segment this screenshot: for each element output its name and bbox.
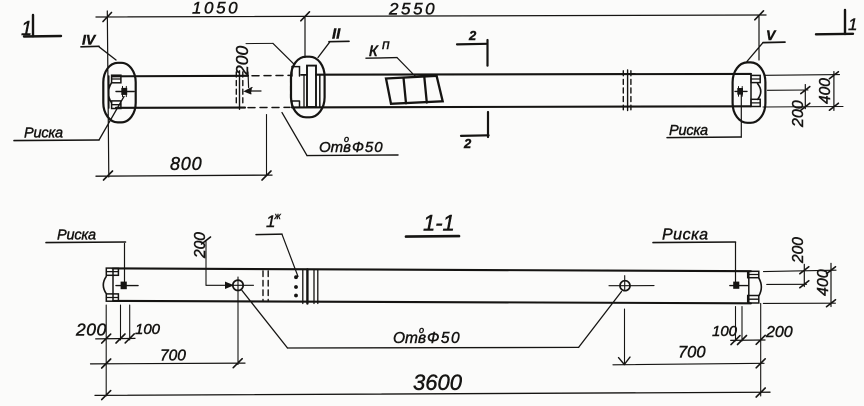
svg-text:II: II [332, 26, 341, 43]
svg-text:п: п [382, 36, 390, 52]
svg-text:200: 200 [790, 237, 807, 264]
svg-text:Ф50: Ф50 [352, 139, 384, 156]
svg-text:Риска: Риска [24, 126, 63, 142]
svg-text:Риска: Риска [57, 228, 96, 244]
svg-text:Риска: Риска [669, 123, 708, 139]
svg-text:100: 100 [135, 321, 161, 338]
svg-text:о: о [344, 134, 349, 144]
svg-text:2: 2 [468, 28, 477, 43]
svg-text:200: 200 [232, 46, 252, 76]
svg-text:800: 800 [170, 154, 202, 174]
svg-text:400: 400 [817, 78, 834, 104]
svg-text:100: 100 [712, 323, 738, 340]
svg-text:2550: 2550 [388, 0, 437, 19]
svg-text:700: 700 [160, 348, 186, 365]
svg-text:о: о [419, 325, 424, 335]
svg-text:1-1: 1-1 [423, 211, 455, 236]
svg-text:400: 400 [815, 269, 832, 296]
svg-text:700: 700 [678, 344, 706, 362]
svg-text:1: 1 [848, 15, 857, 34]
svg-text:3600: 3600 [413, 370, 463, 395]
svg-text:200: 200 [765, 324, 793, 341]
svg-text:200: 200 [790, 100, 807, 128]
svg-text:1050: 1050 [192, 0, 240, 18]
svg-text:1: 1 [21, 18, 32, 40]
svg-text:200: 200 [75, 320, 107, 340]
svg-text:2: 2 [463, 136, 472, 151]
svg-text:Ф50: Ф50 [427, 330, 461, 347]
svg-text:IV: IV [82, 32, 97, 48]
svg-text:ж: ж [274, 211, 282, 221]
svg-text:200: 200 [192, 232, 209, 259]
svg-text:V: V [766, 27, 777, 43]
svg-text:Риска: Риска [662, 227, 709, 244]
svg-text:к: к [369, 40, 379, 61]
